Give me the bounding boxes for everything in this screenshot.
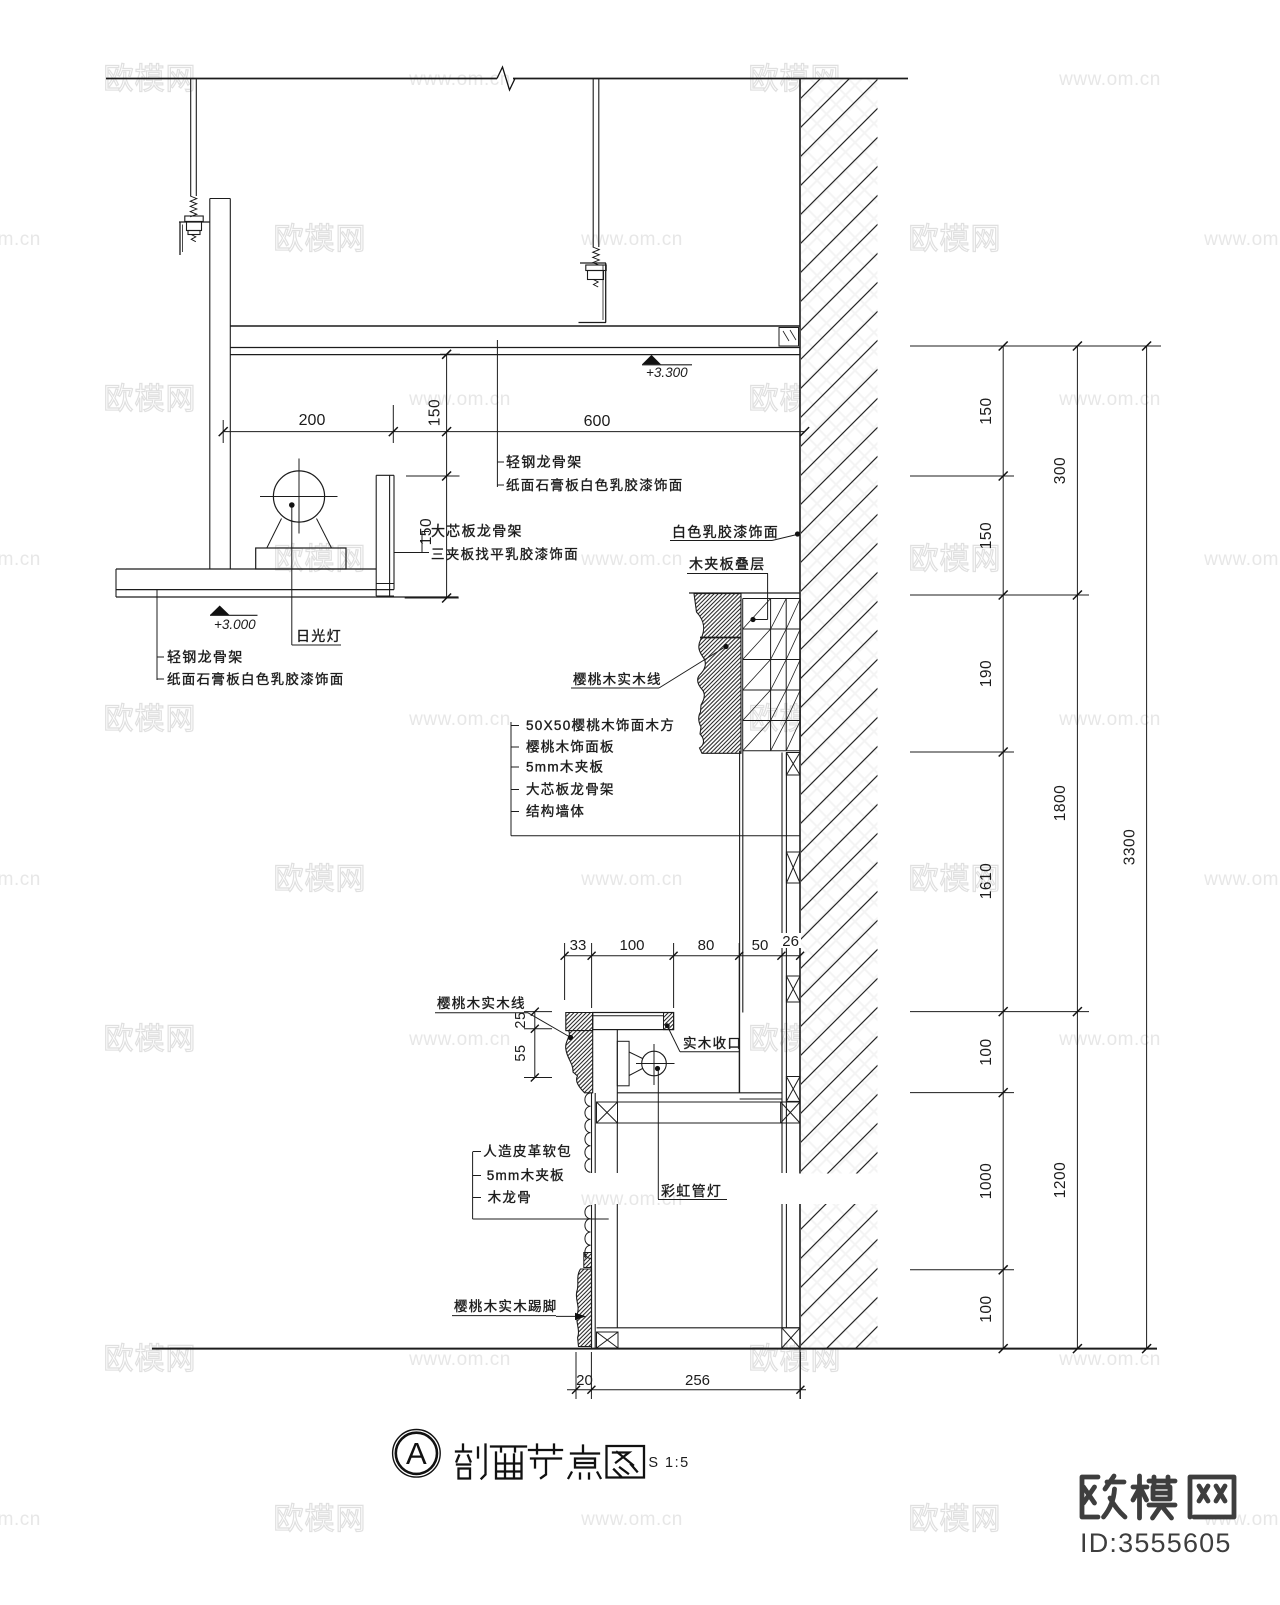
left vertical dim 150/150 [405,350,460,603]
structure labels block [511,717,800,836]
svg-text:5mm木夹板: 5mm木夹板 [526,760,604,775]
svg-text:www.om.cn: www.om.cn [408,709,511,730]
omcn logo [1082,1476,1234,1518]
floor line [152,1348,1157,1350]
svg-text:www.om.cn: www.om.cn [0,1509,41,1530]
wall hatch [801,79,878,1348]
hanger nut right [586,265,606,287]
svg-text:白色乳胶漆饰面: 白色乳胶漆饰面 [672,524,779,540]
svg-text:80: 80 [698,937,715,954]
skirting label [452,1298,586,1320]
counter molding label [435,995,573,1040]
rainbow tube lamp [617,1041,674,1086]
grid label [687,556,768,622]
ceiling channel / edge board [210,199,231,570]
svg-text:ID:3555605: ID:3555605 [1080,1528,1232,1558]
soffit labels [394,523,579,562]
floor slab line (top) [106,67,908,90]
svg-text:人造皮革软包: 人造皮革软包 [483,1144,572,1159]
svg-text:三夹板找平乳胶漆饰面: 三夹板找平乳胶漆饰面 [431,546,579,562]
svg-text:www.om.cn: www.om.cn [1203,229,1280,250]
svg-text:www.om.cn: www.om.cn [408,1349,511,1370]
svg-text:1000: 1000 [978,1163,995,1199]
svg-text:www.om.cn: www.om.cn [1203,549,1280,570]
leader ceiling labels [497,340,683,493]
svg-text:木夹板叠层: 木夹板叠层 [689,556,766,572]
svg-text:100: 100 [978,1038,995,1065]
svg-text:www.om.cn: www.om.cn [580,869,683,890]
plywood build-up grid [743,599,801,751]
svg-text:20: 20 [576,1372,593,1389]
svg-text:200: 200 [299,412,326,429]
dim row 20-256 [567,1352,806,1399]
svg-text:1610: 1610 [978,863,995,899]
svg-text:轻钢龙骨架: 轻钢龙骨架 [506,454,583,470]
counter molding [566,1013,593,1093]
svg-text:+3.300: +3.300 [646,365,688,380]
detail bubble A [393,1430,441,1478]
svg-text:欧模网: 欧模网 [274,1503,367,1536]
svg-text:5mm木夹板: 5mm木夹板 [487,1168,565,1183]
svg-text:300: 300 [1052,457,1069,484]
hanger rod left [190,79,197,217]
ceiling end blocking [779,328,799,347]
svg-text:www.om.cn: www.om.cn [408,1029,511,1050]
svg-text:600: 600 [584,413,611,430]
svg-text:www.om.cn: www.om.cn [408,69,511,90]
padding labels [473,1144,609,1219]
fluorescent lamp [260,459,338,549]
svg-text:100: 100 [978,1295,995,1322]
hanger rod right [593,79,600,265]
wall paint label [670,524,800,541]
lower cabinet verticals [592,1030,618,1348]
hanger bracket right [579,263,607,323]
svg-text:www.om.cn: www.om.cn [1058,1029,1161,1050]
svg-text:www.om.cn: www.om.cn [1203,1509,1280,1530]
left lower ceiling labels [157,590,345,687]
dim row 200-150-600 [219,399,809,443]
skirting pieces [584,1253,592,1268]
svg-text:150: 150 [427,399,444,426]
shelf lines [597,1093,801,1123]
svg-text:大芯板龙骨架: 大芯板龙骨架 [431,523,523,539]
svg-text:A: A [406,1436,427,1471]
svg-text:1200: 1200 [1052,1162,1069,1198]
svg-text:150: 150 [978,522,995,549]
svg-text:www.om.cn: www.om.cn [580,229,683,250]
26 dim label [779,933,801,950]
svg-text:欧模网: 欧模网 [104,703,197,736]
svg-text:欧模网: 欧模网 [274,863,367,896]
svg-text:50X50樱桃木饰面木方: 50X50樱桃木饰面木方 [526,717,675,733]
ceiling cap line over molding [689,592,800,594]
svg-text:100: 100 [619,937,644,954]
svg-text:日光灯: 日光灯 [296,628,342,644]
svg-text:www.om.cn: www.om.cn [408,389,511,410]
wall furring panel lines [782,753,786,1328]
svg-text:www.om.cn: www.om.cn [1058,709,1161,730]
svg-text:樱桃木实木线: 樱桃木实木线 [437,995,526,1011]
lamp base box [256,548,346,569]
soft leather padding scallops [585,1093,591,1258]
lamp leader + text [292,507,342,645]
rainbow lamp leader [658,1070,727,1200]
svg-text:轻钢龙骨架: 轻钢龙骨架 [167,649,244,665]
svg-text:www.om.cn: www.om.cn [1058,389,1161,410]
svg-text:www.om.cn: www.om.cn [0,549,41,570]
svg-text:55: 55 [513,1044,529,1061]
svg-text:樱桃木实木踢脚: 樱桃木实木踢脚 [454,1298,558,1314]
cherry wood skirting [576,1269,591,1347]
level mark +3.000 [210,606,258,633]
wall face line [799,78,801,1399]
svg-text:纸面石膏板白色乳胶漆饰面: 纸面石膏板白色乳胶漆饰面 [167,671,345,687]
25/55 dim [513,1008,552,1082]
svg-text:结构墙体: 结构墙体 [526,804,585,819]
svg-text:50: 50 [752,937,769,954]
svg-text:www.om.cn: www.om.cn [1203,869,1280,890]
svg-text:www.om.cn: www.om.cn [0,229,41,250]
bottom rail [597,1327,801,1329]
right dimension chains [910,342,1161,1354]
svg-text:www.om.cn: www.om.cn [580,1509,683,1530]
svg-text:木龙骨: 木龙骨 [488,1190,532,1205]
svg-text:大芯板龙骨架: 大芯板龙骨架 [526,782,615,797]
svg-text:256: 256 [685,1372,710,1389]
svg-text:1800: 1800 [1052,785,1069,821]
molding label [571,644,729,688]
wood edge label [665,1023,742,1051]
dim row 33-100-80-50-26 [561,937,805,1093]
svg-text:26: 26 [782,933,799,950]
counter top slab [593,1013,674,1030]
svg-text:纸面石膏板白色乳胶漆饰面: 纸面石膏板白色乳胶漆饰面 [506,477,684,493]
svg-text:www.om.cn: www.om.cn [1058,69,1161,90]
svg-text:25: 25 [513,1011,529,1028]
svg-text:www.om.cn: www.om.cn [580,549,683,570]
svg-text:欧模网: 欧模网 [104,1023,197,1056]
svg-text:3300: 3300 [1122,829,1139,865]
soffit edge board (L profile) [376,475,394,596]
hanger bracket left [179,222,210,255]
hanger nut left [185,216,203,242]
crown molding (cherry wood trim) [694,594,741,754]
svg-text:欧模网: 欧模网 [909,223,1002,256]
svg-text:150: 150 [978,397,995,424]
svg-text:+3.000: +3.000 [214,617,256,632]
svg-text:樱桃木饰面板: 樱桃木饰面板 [526,739,615,755]
blocking x-boxes on wall [786,753,800,776]
svg-text:190: 190 [978,660,995,687]
svg-text:实木收口: 实木收口 [683,1036,742,1051]
svg-text:欧模网: 欧模网 [104,383,197,416]
svg-text:欧模网: 欧模网 [274,223,367,256]
svg-text:33: 33 [570,937,587,954]
svg-text:彩虹管灯: 彩虹管灯 [661,1183,722,1199]
upper ceiling lines [230,326,800,355]
cabinet face (upper) [740,751,743,1093]
svg-text:欧模网: 欧模网 [909,1503,1002,1536]
svg-text:樱桃木实木线: 樱桃木实木线 [573,671,662,687]
svg-text:www.om.cn: www.om.cn [0,869,41,890]
svg-text:欧模网: 欧模网 [104,63,197,96]
drawing break band [574,1174,908,1205]
title text [456,1445,644,1479]
level mark +3.300 [642,355,692,380]
lower soffit panel [116,569,459,597]
svg-text:S 1:5: S 1:5 [648,1455,689,1471]
